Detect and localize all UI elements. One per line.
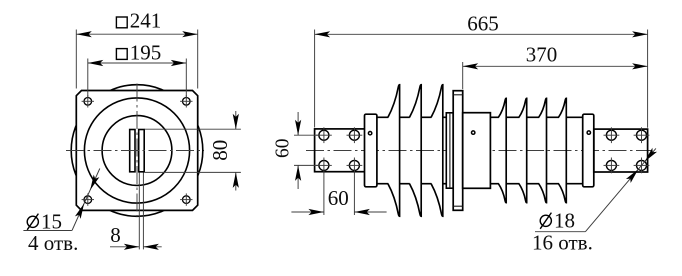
dimension 665 line with arrows xyxy=(315,33,648,35)
dimension 370 line with arrows xyxy=(463,65,648,67)
body section right of flange xyxy=(463,113,491,189)
dimension 60 vertical extension lines xyxy=(294,134,318,136)
right busbar hole 1 xyxy=(604,127,620,143)
dimension 60 horizontal line with outside arrows xyxy=(291,211,324,213)
horizontal centerline left view xyxy=(66,150,204,152)
svg-text:80: 80 xyxy=(208,140,232,161)
small shed 2 xyxy=(519,98,527,202)
right collar xyxy=(583,114,594,187)
svg-text:4 отв.: 4 отв. xyxy=(28,231,78,255)
left collar dot xyxy=(368,132,371,135)
left busbar hole 1 xyxy=(316,127,332,143)
left busbar hole 4 xyxy=(347,158,363,174)
svg-text:195: 195 xyxy=(130,40,162,64)
small shed 4 xyxy=(559,98,567,202)
dimension 8 line with outside arrows xyxy=(110,246,139,248)
svg-text:60: 60 xyxy=(272,138,293,158)
right collar dot xyxy=(587,131,590,134)
right busbar hole 2 xyxy=(634,127,650,143)
flange inner lines xyxy=(453,94,463,96)
vertical centerline left view xyxy=(136,84,138,217)
right busbar hole 4 xyxy=(634,158,650,174)
dimension 370 extension line xyxy=(462,62,464,89)
svg-text:8: 8 xyxy=(110,223,121,247)
left busbar hole 2 xyxy=(347,127,363,143)
svg-text:18: 18 xyxy=(554,209,575,233)
bolt hole top-right with center cross xyxy=(180,95,192,107)
svg-text:15: 15 xyxy=(41,209,62,233)
svg-text:60: 60 xyxy=(328,186,349,210)
barrel segments left section xyxy=(377,117,447,183)
dimension sq241 extension lines xyxy=(75,30,77,89)
mounting flange plate (edge view) xyxy=(453,91,463,211)
big shed 3 xyxy=(431,85,443,217)
outer circle (small shed dia) xyxy=(84,98,189,203)
dimension 60 vertical line with outside arrows xyxy=(297,112,299,135)
barrel segments right section xyxy=(490,117,582,183)
bolt hole bottom-right with center cross xyxy=(180,193,192,205)
dimension 8 extension lines xyxy=(138,173,140,250)
small shed 3 xyxy=(539,98,547,202)
inner circle (collar dia) xyxy=(102,116,172,186)
leader line dia15 xyxy=(72,169,100,231)
dimension 80 line with outside arrows xyxy=(235,111,237,129)
big shed 1 xyxy=(388,85,400,217)
label sq195 xyxy=(116,49,127,60)
dimension 665 extension lines xyxy=(314,30,316,128)
dimension 60 horizontal extension lines xyxy=(323,171,325,215)
right busbar hole 3 xyxy=(604,158,620,174)
left collar xyxy=(365,114,377,187)
terminal blade right (edge view) xyxy=(139,130,145,172)
small shed 1 xyxy=(498,98,506,202)
step ring before flange xyxy=(446,113,453,188)
bolt hole top-left with center cross xyxy=(82,95,94,107)
shed circle arcs protruding beyond square flange xyxy=(71,85,203,217)
dimension 80 extension lines xyxy=(145,128,241,130)
big shed 2 xyxy=(410,85,422,217)
svg-text:241: 241 xyxy=(130,9,162,33)
terminal blade left (edge view) xyxy=(130,130,135,172)
dimension sq241 line with arrows xyxy=(76,33,197,35)
left busbar hole 3 xyxy=(316,158,332,174)
svg-text:370: 370 xyxy=(526,42,558,66)
square flange plate 241x241 with chamfered corners xyxy=(76,91,197,211)
svg-text:16 отв.: 16 отв. xyxy=(532,230,593,254)
body dot xyxy=(472,131,475,134)
label sq241 xyxy=(116,17,127,28)
bolt hole bottom-left with center cross xyxy=(82,193,94,205)
label dia18 16 holes xyxy=(532,209,593,255)
left terminal busbar xyxy=(315,129,366,172)
dimension sq195 line with arrows xyxy=(88,62,187,64)
right terminal busbar xyxy=(594,129,648,172)
dimension sq195 extension lines xyxy=(87,59,89,98)
axis centerline xyxy=(306,150,653,152)
leader line dia18 xyxy=(585,148,656,231)
label dia15 4 holes xyxy=(23,209,78,255)
svg-text:665: 665 xyxy=(467,11,499,35)
